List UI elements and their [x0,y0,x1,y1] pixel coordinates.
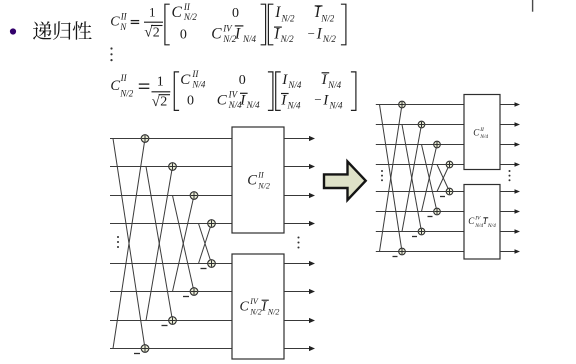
svg-text:I: I [314,4,321,21]
svg-text:I: I [274,4,281,21]
svg-text:√: √ [152,94,161,110]
svg-text:N/4: N/4 [329,101,344,111]
svg-text:0: 0 [180,27,187,42]
svg-text:0: 0 [232,6,239,21]
svg-text:I: I [322,93,329,109]
svg-text:−: − [314,92,321,107]
svg-text:N/2: N/2 [281,13,296,23]
svg-text:N/2: N/2 [280,34,295,44]
svg-text:N/4: N/4 [287,101,302,111]
svg-text:N/2: N/2 [183,12,198,22]
svg-text:I: I [316,25,323,42]
svg-text:N/2: N/2 [249,308,262,317]
svg-text:−: − [308,26,315,41]
svg-text:C: C [217,93,228,109]
svg-text:N/2: N/2 [320,13,335,23]
svg-text:1: 1 [149,5,156,20]
svg-text:0: 0 [187,94,194,109]
svg-text:I: I [239,93,246,109]
svg-text:N/4: N/4 [327,80,342,90]
svg-text:N/4: N/4 [242,34,257,44]
svg-text:N/4: N/4 [287,80,302,90]
svg-text:N/4: N/4 [191,80,206,90]
svg-text:C: C [110,78,120,94]
svg-text:N: N [119,22,127,32]
svg-text:0: 0 [239,73,246,88]
svg-text:C: C [172,4,183,21]
svg-text:II: II [120,12,128,22]
svg-text:C: C [211,25,222,42]
svg-text:II: II [191,69,199,79]
svg-text:N/2: N/2 [257,181,270,190]
svg-text:N/4: N/4 [474,222,483,229]
svg-text:N/2: N/2 [322,34,337,44]
svg-text:IV: IV [222,23,233,33]
svg-text:N/4: N/4 [487,222,496,229]
svg-text:C: C [240,300,250,315]
svg-text:C: C [180,72,191,88]
svg-text:IV: IV [474,216,481,222]
svg-text:2: 2 [160,95,167,110]
svg-text:1: 1 [157,74,164,89]
svg-text:N/2: N/2 [267,308,280,317]
svg-text:II: II [183,2,191,12]
svg-text:N/4: N/4 [479,133,488,140]
svg-text:I: I [280,93,287,109]
svg-text:I: I [281,72,288,88]
svg-text:I: I [234,25,241,42]
svg-text:I: I [321,72,328,88]
svg-text:N/2: N/2 [119,89,134,99]
svg-text:IV: IV [249,297,259,306]
svg-text:IV: IV [228,90,239,100]
svg-text:I: I [273,25,280,42]
svg-text:N/4: N/4 [246,100,261,110]
svg-text:II: II [257,171,264,180]
svg-text:C: C [247,173,257,189]
svg-text:II: II [120,73,128,83]
svg-text:2: 2 [153,25,160,40]
svg-text:C: C [110,15,120,30]
